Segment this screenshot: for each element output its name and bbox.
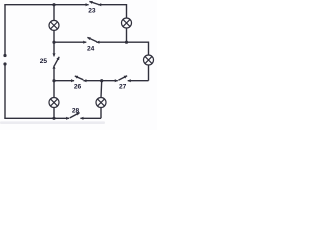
wire: bottom horizontal right of switch 28	[80, 117, 101, 119]
wire: x=54 vertical below switch 25	[53, 66, 55, 81]
scan shadow under bottom wire	[0, 121, 105, 124]
svg-text:24: 24	[87, 46, 95, 53]
svg-text:23: 23	[88, 8, 96, 15]
lamp E3 circle	[144, 55, 154, 65]
svg-text:27: 27	[119, 84, 127, 91]
lamp E2 cross	[123, 19, 130, 26]
node: junction lower wire / E5 branch	[100, 79, 103, 82]
wire: right vertical lamp to lower wire	[148, 65, 150, 81]
terminal dot upper	[3, 54, 6, 57]
lamp E5 cross	[97, 99, 104, 106]
node: junction middle wire left	[52, 41, 55, 44]
switch S23 blade	[89, 1, 98, 4]
lamp E1 cross	[50, 22, 57, 29]
wire: right vertical middle wire to lamp	[148, 42, 150, 56]
switch S25 blade	[54, 57, 59, 66]
wire: x=54 vertical above switch 25	[53, 42, 55, 56]
switch S27 blade	[118, 76, 127, 81]
wire: lower horizontal right of switch 27	[128, 80, 149, 82]
wire: left vertical upper segment	[4, 5, 6, 56]
lamp E2 circle	[122, 18, 132, 28]
switch S24 blade	[87, 37, 96, 41]
wire: lower horizontal left of switch 26	[54, 80, 74, 82]
switch S26 blade	[75, 76, 84, 80]
node: junction top wire / left lamp branch	[52, 3, 55, 6]
node: junction bottom wire / E4 branch	[52, 117, 55, 120]
node: junction lower wire left	[52, 79, 55, 82]
node: junction middle wire / E2 branch	[125, 41, 128, 44]
wire: top right vertical down to lamp	[126, 4, 128, 18]
switch S28 blade	[70, 113, 80, 118]
wire: top horizontal right of switch 23	[98, 4, 126, 6]
svg-text:28: 28	[72, 107, 80, 114]
wire: branch x=54 lower wire to lamp E4	[53, 81, 55, 98]
wire: middle horizontal left of switch 24	[54, 41, 86, 43]
lamp E3 cross	[145, 56, 152, 63]
lamp E5 circle	[96, 98, 106, 108]
wire: bottom horizontal left of switch 28	[4, 117, 69, 119]
svg-text:25: 25	[40, 58, 48, 65]
wire: middle horizontal right of switch 24	[96, 41, 148, 43]
terminal dot lower	[3, 62, 6, 65]
wire: branch x=54 lamp to middle wire	[53, 30, 55, 42]
wire: branch x=54 from top to lamp	[53, 5, 55, 21]
lamp E4 circle	[49, 98, 59, 108]
lamp E4 cross	[50, 99, 57, 106]
wire: top right vertical lamp to middle wire	[126, 28, 128, 42]
svg-text:26: 26	[74, 84, 82, 91]
lamp E1 circle	[49, 20, 59, 30]
wire: branch x=54 lamp E4 to bottom wire	[53, 108, 55, 119]
wire: branch x=101 lamp E5 to bottom wire	[100, 108, 102, 119]
wire: branch x=101 junction to lamp E5	[100, 81, 103, 98]
wire: lower horizontal left of switch 27	[102, 80, 118, 82]
wire: left vertical lower segment	[4, 64, 6, 118]
wire: lower horizontal between switch 26 and 27 left part	[83, 80, 101, 82]
wire: top horizontal left of switch 23	[4, 4, 88, 6]
